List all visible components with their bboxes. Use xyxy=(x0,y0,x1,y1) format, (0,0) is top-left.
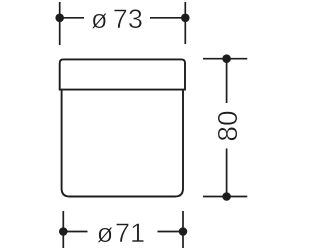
dimension ø 71: left dot xyxy=(59,227,68,236)
container body xyxy=(62,90,183,197)
dimension ø 73: right leader line xyxy=(150,17,185,19)
dimension 80: top dot xyxy=(222,54,231,63)
svg-text:73: 73 xyxy=(113,4,143,34)
dimension ø 73: right extension tick xyxy=(184,2,186,44)
dimension 80: bottom extension tick xyxy=(203,196,247,198)
svg-text:ø: ø xyxy=(97,218,114,248)
dimension ø 73: left leader line xyxy=(60,17,84,19)
dimension 80: top extension tick xyxy=(203,58,247,60)
dimension ø 71: left leader line xyxy=(63,231,87,233)
dimension ø 71: right dot xyxy=(179,227,188,236)
svg-text:71: 71 xyxy=(115,218,145,248)
dimension ø 71: left extension tick xyxy=(62,211,64,248)
dimension ø 73: right dot xyxy=(181,13,190,22)
dimension ø 71: right extension tick xyxy=(182,211,184,248)
svg-text:80: 80 xyxy=(212,110,243,141)
dimension ø 71: right leader line xyxy=(158,231,184,233)
dimension 80: lower leader line xyxy=(226,149,228,197)
container rim (lid) xyxy=(60,59,185,89)
dimension ø 73: left dot xyxy=(55,13,64,22)
svg-text:ø: ø xyxy=(91,4,108,34)
dimension 80: bottom dot xyxy=(222,192,231,201)
dimension 80: upper leader line xyxy=(226,59,228,103)
dimension ø 73: left extension tick xyxy=(59,2,61,45)
